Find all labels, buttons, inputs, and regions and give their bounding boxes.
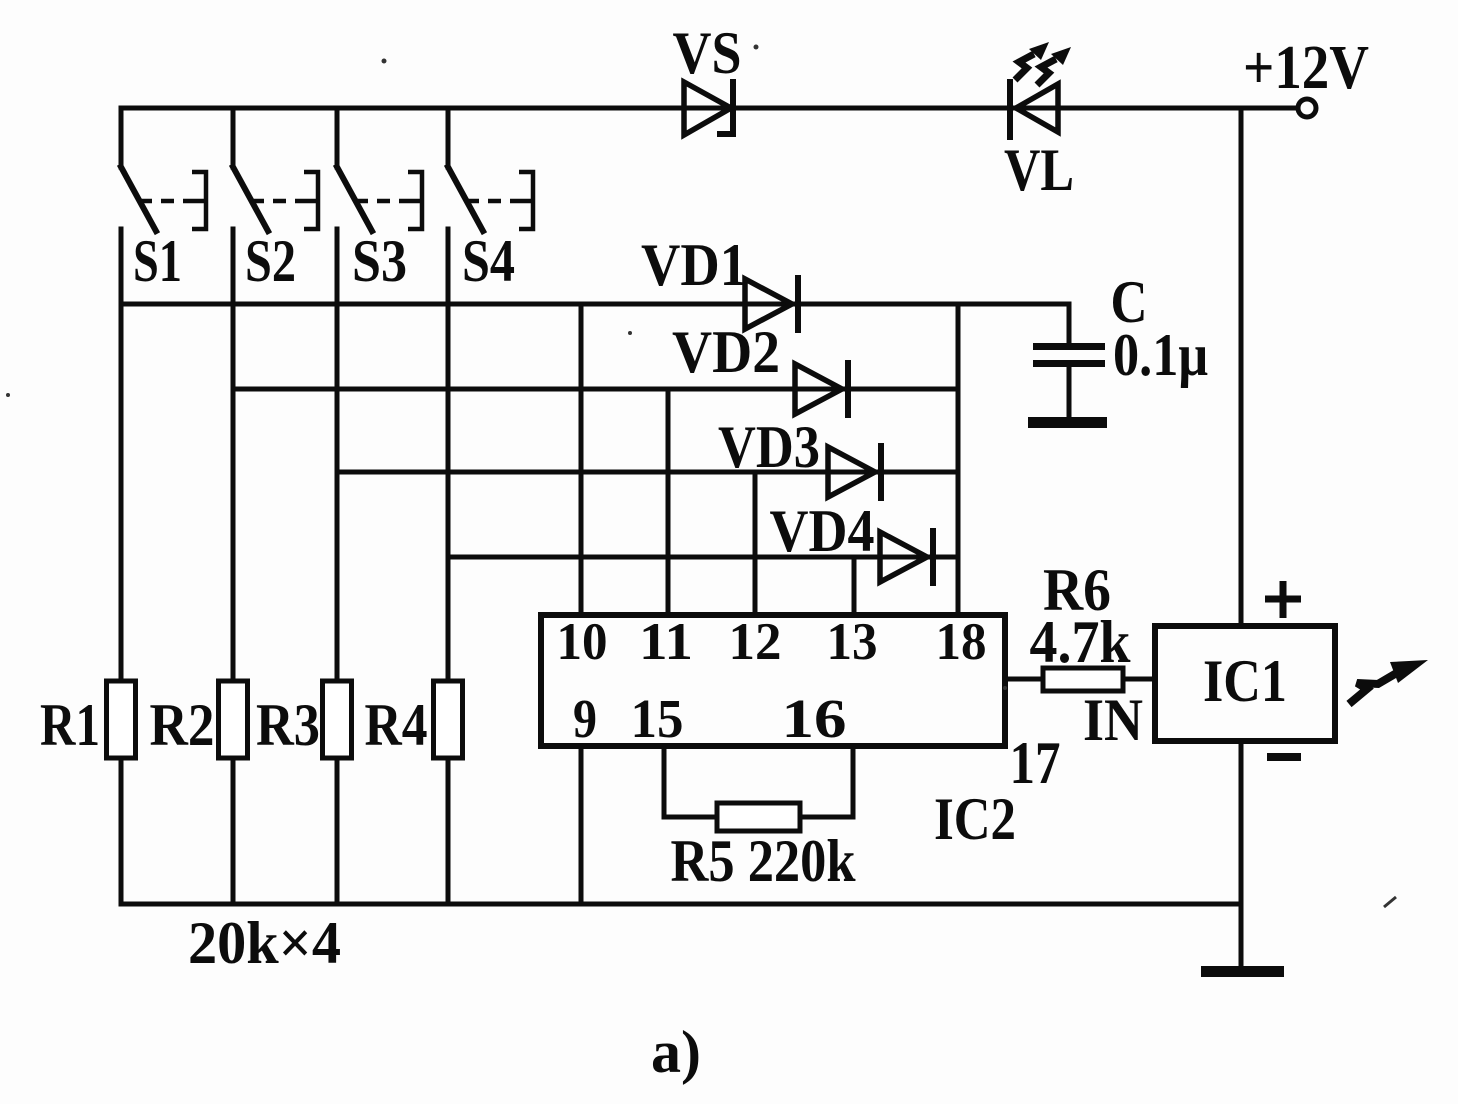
- resistor R1: [107, 681, 136, 758]
- terminal: +12V supply: [1298, 99, 1316, 117]
- svg-text:17: 17: [1010, 730, 1061, 796]
- switch S4: [448, 108, 483, 904]
- svg-text:S1: S1: [133, 228, 182, 294]
- plus sign of IC1: [1265, 581, 1301, 618]
- wire: row 4 (S4 / pin13 / VD4 anode): [448, 555, 958, 560]
- svg-text:16: 16: [782, 688, 847, 749]
- svg-text:S3: S3: [352, 228, 407, 294]
- resistor R5: [717, 803, 800, 831]
- svg-text:R3: R3: [256, 692, 320, 758]
- switch S1: [121, 108, 156, 904]
- svg-text:9: 9: [573, 688, 597, 749]
- wire: pin 13 column: [852, 557, 857, 615]
- scan specks: [6, 45, 1396, 908]
- wire: diode cathode junction down to pin 18: [956, 304, 961, 615]
- IC1 box: [1155, 626, 1335, 741]
- svg-text:R4: R4: [365, 692, 428, 758]
- svg-text:20k×4: 20k×4: [188, 910, 341, 976]
- ground: [1201, 966, 1284, 977]
- svg-text:IC2: IC2: [934, 786, 1016, 852]
- wire: capacitor lead from node: [1067, 304, 1072, 343]
- LED VL: [1010, 82, 1058, 137]
- svg-text:11: 11: [639, 613, 693, 671]
- svg-text:S4: S4: [462, 228, 515, 294]
- wire: row 1 (S1 / pin10 / VD1 anode): [121, 302, 1069, 307]
- wire: row 3 (S3 / pin12 / VD3 anode): [337, 470, 958, 475]
- svg-text:12: 12: [729, 613, 782, 671]
- svg-text:13: 13: [827, 613, 878, 671]
- linkage of S3: [355, 172, 422, 229]
- diode VD3: [828, 446, 881, 498]
- wire: pin 17 to R6: [1005, 677, 1043, 682]
- svg-text:IC1: IC1: [1203, 648, 1287, 714]
- wire: pin 11 column: [666, 389, 671, 615]
- wire: R5 to pin 16: [800, 746, 853, 817]
- minus sign of IC1: [1267, 753, 1301, 761]
- wire: bottom rail: [121, 902, 1241, 907]
- svg-text:10: 10: [557, 613, 608, 671]
- svg-text:VD3: VD3: [718, 414, 820, 480]
- resistor R4: [434, 681, 463, 758]
- wire: pin 12 column: [753, 472, 758, 615]
- ground under capacitor: [1028, 417, 1107, 428]
- capacitor C: [1033, 343, 1105, 418]
- wire: +12V branch down to IC1: [1239, 108, 1244, 626]
- switch S2: [233, 108, 268, 904]
- IC2 box: [541, 615, 1005, 746]
- svg-text:R5 220k: R5 220k: [671, 828, 857, 894]
- svg-text:15: 15: [631, 688, 684, 749]
- svg-text:0.1μ: 0.1μ: [1113, 322, 1208, 388]
- wire: R6 to IC1 IN: [1123, 677, 1155, 682]
- diode VD4: [880, 531, 933, 583]
- svg-text:VD1: VD1: [641, 232, 747, 298]
- resistor R2: [219, 681, 248, 758]
- svg-text:S2: S2: [245, 228, 296, 294]
- wire: IC1 negative lead to ground: [1239, 741, 1244, 971]
- diode VD1: [745, 278, 798, 330]
- svg-text:VD2: VD2: [672, 319, 780, 385]
- svg-text:IN: IN: [1083, 687, 1143, 753]
- wire: pin 9 to bottom rail: [579, 746, 584, 904]
- linkage of S2: [251, 172, 318, 229]
- svg-text:4.7k: 4.7k: [1030, 609, 1132, 675]
- switch S3: [337, 108, 372, 904]
- svg-text:18: 18: [936, 613, 987, 671]
- emission arrow of IC1: [1349, 660, 1428, 704]
- linkage of S1: [139, 172, 206, 229]
- diode VS: [684, 82, 733, 135]
- wire: +12V top rail: [121, 106, 1296, 111]
- resistor R6: [1043, 668, 1123, 691]
- diode VD2: [795, 363, 848, 415]
- svg-text:a): a): [651, 1019, 701, 1085]
- linkage of S4: [466, 172, 533, 229]
- svg-text:VL: VL: [1004, 137, 1074, 203]
- emission arrow 2 of VL: [1037, 47, 1071, 85]
- wire: pin 15 leg: [664, 746, 717, 817]
- svg-text:R2: R2: [150, 692, 215, 758]
- svg-text:VD4: VD4: [770, 498, 875, 564]
- svg-text:+12V: +12V: [1243, 34, 1369, 102]
- emission arrow 1 of VL: [1015, 42, 1049, 80]
- wire: pin 10 column: [579, 304, 584, 615]
- resistor R3: [323, 681, 352, 758]
- svg-text:R1: R1: [40, 692, 100, 758]
- wire: row 2 (S2 / pin11 / VD2 anode): [233, 387, 958, 392]
- svg-text:VS: VS: [673, 20, 742, 86]
